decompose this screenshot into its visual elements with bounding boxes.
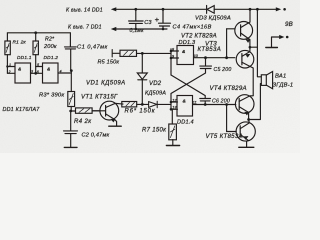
svg-text:DD1.2: DD1.2 <box>44 55 59 61</box>
svg-text:&: & <box>47 67 50 72</box>
diode VD2 KD509A vertical <box>137 53 147 104</box>
svg-text:9В: 9В <box>285 21 293 28</box>
paper background <box>0 0 300 153</box>
svg-text:R4 2к: R4 2к <box>74 119 92 125</box>
transistor VT4 KT829A <box>235 95 254 114</box>
svg-text:ЗГДВ-1: ЗГДВ-1 <box>273 83 294 89</box>
svg-text:DD1.3: DD1.3 <box>179 40 197 46</box>
gate DD1.4 box <box>177 96 193 117</box>
svg-text:VD3 КД509А: VD3 КД509А <box>195 16 231 22</box>
VT5 emitter arrow pnp <box>244 136 248 139</box>
wire: R2 stubs down to gate2 input tie <box>35 33 37 74</box>
speaker BA1 box <box>261 75 266 86</box>
transistor VT5 KT853A <box>236 122 255 141</box>
resistor R7 150k vertical box with stub <box>171 110 173 124</box>
svg-text:&: & <box>183 99 186 104</box>
svg-text:R6* 150к: R6* 150к <box>125 108 156 114</box>
diode VD1 KD509A horizontal <box>149 101 158 108</box>
wire: R4 to VT1 base <box>92 110 100 112</box>
ground of VT5 <box>239 146 254 148</box>
wire: ground rail from pin7 arrow under C3 C4 <box>116 28 168 30</box>
gate internals: ampersand symbols <box>18 49 186 104</box>
capacitor C6 200 <box>200 99 211 105</box>
svg-text:200к: 200к <box>43 44 57 50</box>
svg-text:R7 150к: R7 150к <box>142 128 167 134</box>
svg-text:R5 150к: R5 150к <box>98 60 120 66</box>
resistor R2* 200k vertical box <box>33 41 38 55</box>
wire: VT4/VT5 node to speaker bottom <box>249 84 262 120</box>
wire: top +9V rail from pin14 arrow to VD3 <box>116 8 207 10</box>
wire: R1 bottom to gate1 inputs <box>6 55 8 74</box>
wire: gate1 input stubs <box>7 67 15 74</box>
svg-text:К выв. 14 DD1: К выв. 14 DD1 <box>66 7 103 13</box>
resistor R4 2k horizontal box <box>76 108 93 113</box>
wire: DD1.4 input stubs <box>171 102 178 109</box>
svg-text:&: & <box>18 66 21 71</box>
node A junction C1/pin4/R3 <box>70 71 72 92</box>
gate DD1.3 box <box>177 46 194 65</box>
svg-text:С4 47мк×16В: С4 47мк×16В <box>173 24 212 30</box>
svg-text:С2 0,47мк: С2 0,47мк <box>82 132 110 138</box>
svg-text:DD1.1: DD1.1 <box>17 55 32 61</box>
diode VD3 KD509A on rail <box>207 5 215 13</box>
capacitor C5 200 <box>200 58 212 73</box>
transistor VT1 KT315G <box>100 101 119 120</box>
transistor VT3 KT853A <box>236 50 254 68</box>
svg-text:0,1мк: 0,1мк <box>130 28 145 34</box>
wire: node B to R4 <box>71 110 76 112</box>
resistor R3* 390k vertical box <box>68 92 75 107</box>
svg-text:VT1 КТ315Г: VT1 КТ315Г <box>81 94 118 101</box>
VT4 emitter arrow <box>245 112 249 115</box>
gate DD1.1 box <box>15 63 31 83</box>
capacitor C3 0,1mk <box>129 9 144 29</box>
svg-text:ВА1: ВА1 <box>275 74 286 80</box>
svg-text:VD2: VD2 <box>149 81 162 87</box>
arrows <box>111 7 285 39</box>
wire: gate2 input stubs <box>36 67 43 74</box>
wire: riser to VT5 base <box>227 105 237 132</box>
wire: R3 bottom to node B <box>70 107 72 112</box>
wire: DD1.4 output pin11 to bases riser <box>193 104 236 106</box>
svg-text:DD1 К176ЛА7: DD1 К176ЛА7 <box>3 107 41 113</box>
svg-text:С6 200: С6 200 <box>212 99 230 105</box>
svg-text:КД509А: КД509А <box>145 90 166 96</box>
VT2 emitter arrow <box>246 39 250 42</box>
svg-text:С5 200: С5 200 <box>214 67 232 73</box>
wire: minus terminal line and L to ground <box>272 37 280 47</box>
arrow to pin 14 DD1 <box>111 7 117 11</box>
wire: VD1 to DD1.4 input tie <box>157 103 171 105</box>
svg-text:R2*: R2* <box>45 36 55 42</box>
wire: left top rail <box>7 33 70 46</box>
VT1 emitter arrow <box>111 119 115 122</box>
resistor R6* 150k horizontal box <box>122 102 137 107</box>
arrow to pin 7 DD1 <box>111 27 117 31</box>
wire: DD1.3 input tie and stubs <box>171 49 179 75</box>
svg-text:VT5 КТ853А: VT5 КТ853А <box>206 133 243 140</box>
wire: gate1 output pin3 to gate2 tie <box>31 72 36 74</box>
svg-text:К выв. 7 DD1: К выв. 7 DD1 <box>68 24 102 30</box>
svg-text:VT2 КТ829А: VT2 КТ829А <box>181 33 217 39</box>
wire: rail VD3 to output arrow <box>214 8 276 10</box>
svg-text:С3: С3 <box>144 20 152 26</box>
plus sign of C4 <box>155 18 158 21</box>
wire: R6 to VD1 <box>137 103 149 105</box>
wire: cross coupling diagonal DD1.3 tie to C6 <box>171 75 205 98</box>
wire: emitter bus to speaker <box>257 9 261 77</box>
ground of C2 <box>64 146 77 148</box>
R5 left end bar terminal <box>112 50 120 57</box>
svg-text:9: 9 <box>172 54 174 58</box>
transistor VT2 KT829A <box>235 22 253 40</box>
arrow +9V terminal <box>276 7 281 11</box>
svg-text:VT4 КТ829А: VT4 КТ829А <box>210 85 247 92</box>
resistor R1 2k vertical box <box>5 41 39 55</box>
VT3 emitter arrow pnp <box>246 54 250 57</box>
capacitor C4 47mk x 16V polarized <box>159 9 171 29</box>
ground of VT1 emitter <box>109 125 121 127</box>
svg-text:R1 2к: R1 2к <box>13 40 27 46</box>
svg-text:&: & <box>182 49 185 54</box>
svg-text:VD1 КД509А: VD1 КД509А <box>86 80 126 86</box>
capacitor C1 0,47mk <box>65 46 77 71</box>
svg-text:КТ853А: КТ853А <box>198 47 222 53</box>
svg-text:2: 2 <box>8 70 11 74</box>
wire: riser to VT2 base <box>226 29 228 58</box>
speaker BA1 cone <box>266 72 272 89</box>
wire: DD1.3 output pin10 to bases riser <box>194 57 235 59</box>
ground of R7 <box>172 140 174 145</box>
arrow minus terminal <box>279 35 284 39</box>
wire: R5 to DD1.3 input tie with VD2 tap <box>137 52 172 54</box>
svg-text:1: 1 <box>9 63 11 67</box>
resistor R5 150k horizontal box <box>120 50 137 56</box>
svg-text:12: 12 <box>172 99 176 103</box>
wire: gate2 output pin4 to node A <box>58 72 71 74</box>
svg-text:11: 11 <box>193 100 197 104</box>
gate DD1.2 box <box>43 63 59 83</box>
svg-text:С1 0,47мк: С1 0,47мк <box>77 44 108 50</box>
svg-text:DD1.4: DD1.4 <box>177 120 194 126</box>
pin numbers <box>8 47 199 109</box>
svg-text:R3* 390к: R3* 390к <box>39 92 64 98</box>
svg-text:4: 4 <box>60 69 62 73</box>
capacitor C2 0,47mk <box>64 111 78 147</box>
ground of minus terminal <box>266 47 278 49</box>
wire: cross coupling diagonal C5 to DD1.4 inputs <box>171 73 206 109</box>
